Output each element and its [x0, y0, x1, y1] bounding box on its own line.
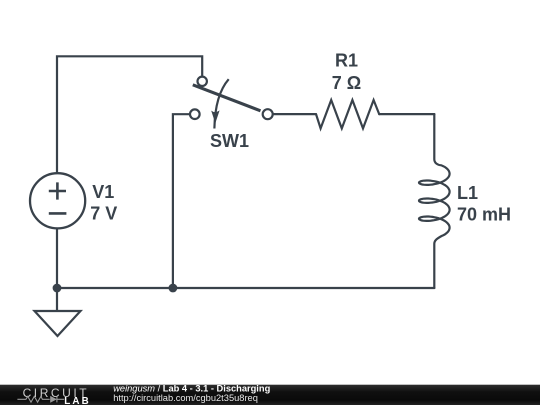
svg-text:SW1: SW1	[210, 131, 249, 151]
wire switch common to R1	[274, 113, 317, 115]
svg-text:LAB: LAB	[64, 396, 91, 405]
wire bottom rail	[57, 287, 434, 289]
junction dot node A	[53, 284, 62, 293]
wire R1 to L1	[379, 113, 434, 115]
voltage source V1 body	[30, 173, 85, 228]
ground	[35, 288, 81, 336]
SW1 left throw terminal	[190, 109, 200, 119]
inductor L1	[419, 114, 450, 288]
SW1 common terminal	[263, 109, 273, 119]
logo diode bar and wire	[57, 396, 64, 402]
wire V1 bottom to ground node	[56, 229, 58, 288]
wire top loop	[57, 56, 202, 173]
switch motion arrow	[214, 79, 228, 128]
V1 plus sign	[49, 182, 66, 199]
junction dot node B	[169, 284, 178, 293]
svg-text:http://circuitlab.com/cgbu2t35: http://circuitlab.com/cgbu2t35u8req	[113, 393, 258, 403]
resistor R1	[316, 100, 379, 128]
svg-text:70 mH: 70 mH	[457, 205, 511, 225]
svg-text:L1: L1	[457, 183, 478, 203]
footer bar	[0, 385, 540, 405]
switch lever	[193, 85, 261, 111]
svg-text:V1: V1	[92, 182, 114, 202]
svg-text:7 V: 7 V	[90, 204, 117, 224]
logo resistor	[17, 396, 49, 402]
SW1 top throw terminal	[198, 77, 207, 86]
svg-text:R1: R1	[335, 51, 358, 71]
switch SW1	[190, 77, 273, 129]
svg-text:7 Ω: 7 Ω	[332, 73, 361, 93]
V1 minus sign	[49, 212, 67, 215]
switch arrow head	[211, 110, 219, 123]
wire switch left throw down	[173, 114, 189, 288]
logo diode triangle	[50, 396, 57, 403]
